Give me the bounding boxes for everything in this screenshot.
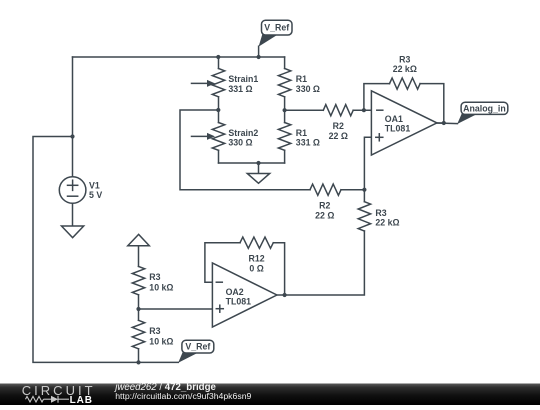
wire V_Ref branch left-bottom	[33, 137, 178, 363]
svg-text:330 Ω: 330 Ω	[296, 84, 320, 94]
resistor Strain1 331 ohm strain gauge	[192, 57, 225, 110]
wire OA1 feedback right	[420, 84, 444, 123]
svg-text:Strain2: Strain2	[228, 128, 258, 138]
wire power flag to R3 divider top	[138, 246, 140, 267]
svg-text:R1: R1	[296, 128, 307, 138]
svg-text:5 V: 5 V	[89, 190, 102, 200]
resistor R1 331 ohm bridge bottom right	[278, 110, 290, 163]
svg-text:R3: R3	[149, 272, 160, 282]
op-amp OA1 TL081	[371, 91, 437, 155]
wire OA2 plus input	[139, 308, 213, 310]
wire OA2 feedback left	[205, 243, 240, 283]
svg-text:22 Ω: 22 Ω	[315, 210, 334, 220]
resistor R12 0 ohm OA2 feedback	[240, 237, 273, 248]
resistor R2 22 ohm to OA1 inverting input	[323, 105, 353, 116]
svg-text:22 Ω: 22 Ω	[329, 131, 348, 141]
svg-text:TL081: TL081	[385, 124, 411, 134]
svg-text:22 kΩ: 22 kΩ	[375, 218, 399, 228]
svg-text:22 kΩ: 22 kΩ	[393, 64, 417, 74]
resistor R3 10 kohm divider bottom	[132, 320, 144, 349]
resistor R1 330 ohm bridge top right	[278, 57, 290, 110]
svg-text:Strain1: Strain1	[228, 74, 258, 84]
svg-text:http://circuitlab.com/c9uf3h4p: http://circuitlab.com/c9uf3h4pk6sn9	[115, 391, 251, 401]
wire V_Ref top flag stub	[258, 46, 260, 57]
net flag V_Ref bottom	[178, 340, 214, 363]
resistor Strain2 330 ohm strain gauge	[192, 110, 225, 163]
wire bridge mid-right to R2 upper	[285, 109, 324, 111]
voltage source V1 5V	[59, 177, 86, 204]
wire V1 minus to ground	[72, 203, 74, 226]
wire node to R3 22k top	[363, 190, 365, 202]
svg-text:330 Ω: 330 Ω	[228, 138, 252, 148]
svg-text:R3: R3	[375, 208, 386, 218]
svg-text:R1: R1	[296, 74, 307, 84]
resistor R3 10 kohm divider top	[132, 266, 144, 294]
svg-text:R2: R2	[333, 121, 344, 131]
ground bridge bottom	[247, 174, 269, 184]
svg-text:10 kΩ: 10 kΩ	[149, 336, 173, 346]
svg-text:TL081: TL081	[226, 296, 252, 306]
wire OA1 feedback left	[364, 84, 390, 111]
resistor R3 22 kohm OA1 feedback	[390, 78, 421, 89]
svg-text:10 kΩ: 10 kΩ	[149, 282, 173, 292]
wire OA1 output to flag	[437, 122, 458, 125]
svg-text:0 Ω: 0 Ω	[249, 263, 263, 273]
svg-text:331 Ω: 331 Ω	[228, 84, 252, 94]
svg-text:Analog_in: Analog_in	[463, 103, 506, 113]
svg-text:V_Ref: V_Ref	[185, 342, 210, 352]
svg-text:OA2: OA2	[226, 287, 244, 297]
svg-text:R3: R3	[149, 326, 160, 336]
wire R2 upper to OA1 inverting node	[353, 109, 371, 111]
power rail triangle above divider	[128, 234, 150, 245]
svg-text:LAB: LAB	[70, 395, 93, 405]
net flag Analog_in	[457, 102, 508, 124]
wire R3 22k bottom to OA2 output	[277, 231, 365, 295]
svg-text:V_Ref: V_Ref	[264, 23, 289, 33]
svg-text:OA1: OA1	[385, 114, 403, 124]
resistor R3 22 kohm to OA2 output	[358, 202, 370, 231]
svg-text:R2: R2	[319, 201, 330, 211]
op-amp OA2 TL081	[212, 263, 277, 327]
wire OA1 plus input to node	[341, 137, 371, 189]
ground below V1	[62, 226, 84, 238]
svg-text:R12: R12	[249, 254, 265, 264]
svg-text:331 Ω: 331 Ω	[296, 138, 320, 148]
wire bridge bottom rail	[219, 162, 285, 164]
net flag V_Ref top	[259, 20, 292, 46]
wire R3 divider middle	[138, 295, 140, 321]
wire top rail (V_Ref net)	[73, 56, 285, 58]
svg-text:R3: R3	[399, 54, 410, 64]
wire OA2 feedback right	[273, 243, 284, 295]
CircuitLab logo resistor-diode doodle	[26, 396, 70, 403]
resistor R2 22 ohm to OA1 non-inverting node	[310, 184, 341, 195]
wire R3 divider bottom	[138, 349, 140, 363]
wire bridge mid-left to R2 lower	[180, 110, 310, 190]
wire bridge ground stub	[258, 163, 260, 174]
wire left rail to V1 plus	[72, 57, 74, 177]
